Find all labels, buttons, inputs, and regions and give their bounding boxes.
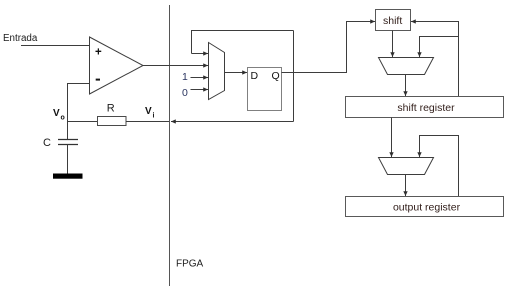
- wire mux M3 output to output register: [405, 175, 407, 197]
- wire Entrada to op-amp + input: [21, 45, 90, 47]
- svg-text:V: V: [53, 108, 60, 119]
- block shift: [376, 10, 411, 31]
- resistor R: [98, 117, 127, 126]
- svg-text:0: 0: [182, 87, 188, 99]
- mux M1: [209, 43, 225, 100]
- node Vo label: [53, 108, 65, 122]
- wire mux M2 output to shift register: [405, 75, 407, 97]
- svg-text:Q: Q: [272, 70, 280, 82]
- svg-text:shift: shift: [383, 15, 402, 27]
- mux M2: [379, 58, 434, 75]
- svg-text:Entrada: Entrada: [3, 33, 38, 44]
- svg-text:output register: output register: [393, 202, 461, 214]
- wire Q output to shift block: [282, 22, 376, 73]
- wire comparator output to mux M1 input: [143, 65, 208, 67]
- wire resistor to node Vi: [126, 121, 170, 123]
- svg-text:R: R: [107, 103, 115, 115]
- block shift register: [346, 97, 504, 118]
- op-amp U1 comparator: [90, 37, 144, 94]
- label FPGA: [176, 259, 204, 270]
- wire shift register feedback to shift block right input: [411, 22, 459, 97]
- label Entrada: [3, 33, 38, 44]
- svg-text:shift register: shift register: [397, 102, 455, 114]
- svg-text:+: +: [95, 47, 102, 59]
- label R: [107, 103, 115, 115]
- capacitor C: [58, 122, 78, 174]
- flip-flop U2 D flip-flop: [248, 68, 282, 111]
- wire feedback loop Q to mux M1 top input: [192, 31, 294, 54]
- svg-text:D: D: [251, 70, 259, 82]
- wire feedback loop right side Q to Vi: [171, 31, 294, 122]
- wire feedback branch to mux M2 right input: [420, 37, 459, 58]
- svg-text:i: i: [153, 113, 155, 120]
- wire shift register output to mux M3: [391, 118, 393, 158]
- svg-text:1: 1: [182, 71, 188, 83]
- wire output register feedback to mux M3 right input: [420, 136, 459, 197]
- svg-text:C: C: [43, 137, 51, 149]
- wire select input 0: [191, 89, 209, 91]
- label 0: [182, 87, 188, 99]
- mux M3: [379, 158, 434, 175]
- svg-text:FPGA: FPGA: [176, 259, 204, 270]
- ground: [53, 174, 83, 179]
- svg-text:o: o: [61, 115, 65, 122]
- node Vi label: [145, 106, 155, 120]
- wire mux M1 output to flip-flop D input: [225, 72, 248, 74]
- wire Vo to resistor: [68, 121, 98, 123]
- wire op-amp - input to node Vo: [68, 84, 90, 122]
- label 1: [182, 71, 188, 83]
- FPGA boundary line: [169, 5, 171, 286]
- block output register: [346, 197, 504, 217]
- wire shift block output to mux M2: [392, 31, 394, 58]
- wire select input 1: [191, 77, 209, 79]
- label C: [43, 137, 51, 149]
- svg-text:V: V: [145, 106, 152, 117]
